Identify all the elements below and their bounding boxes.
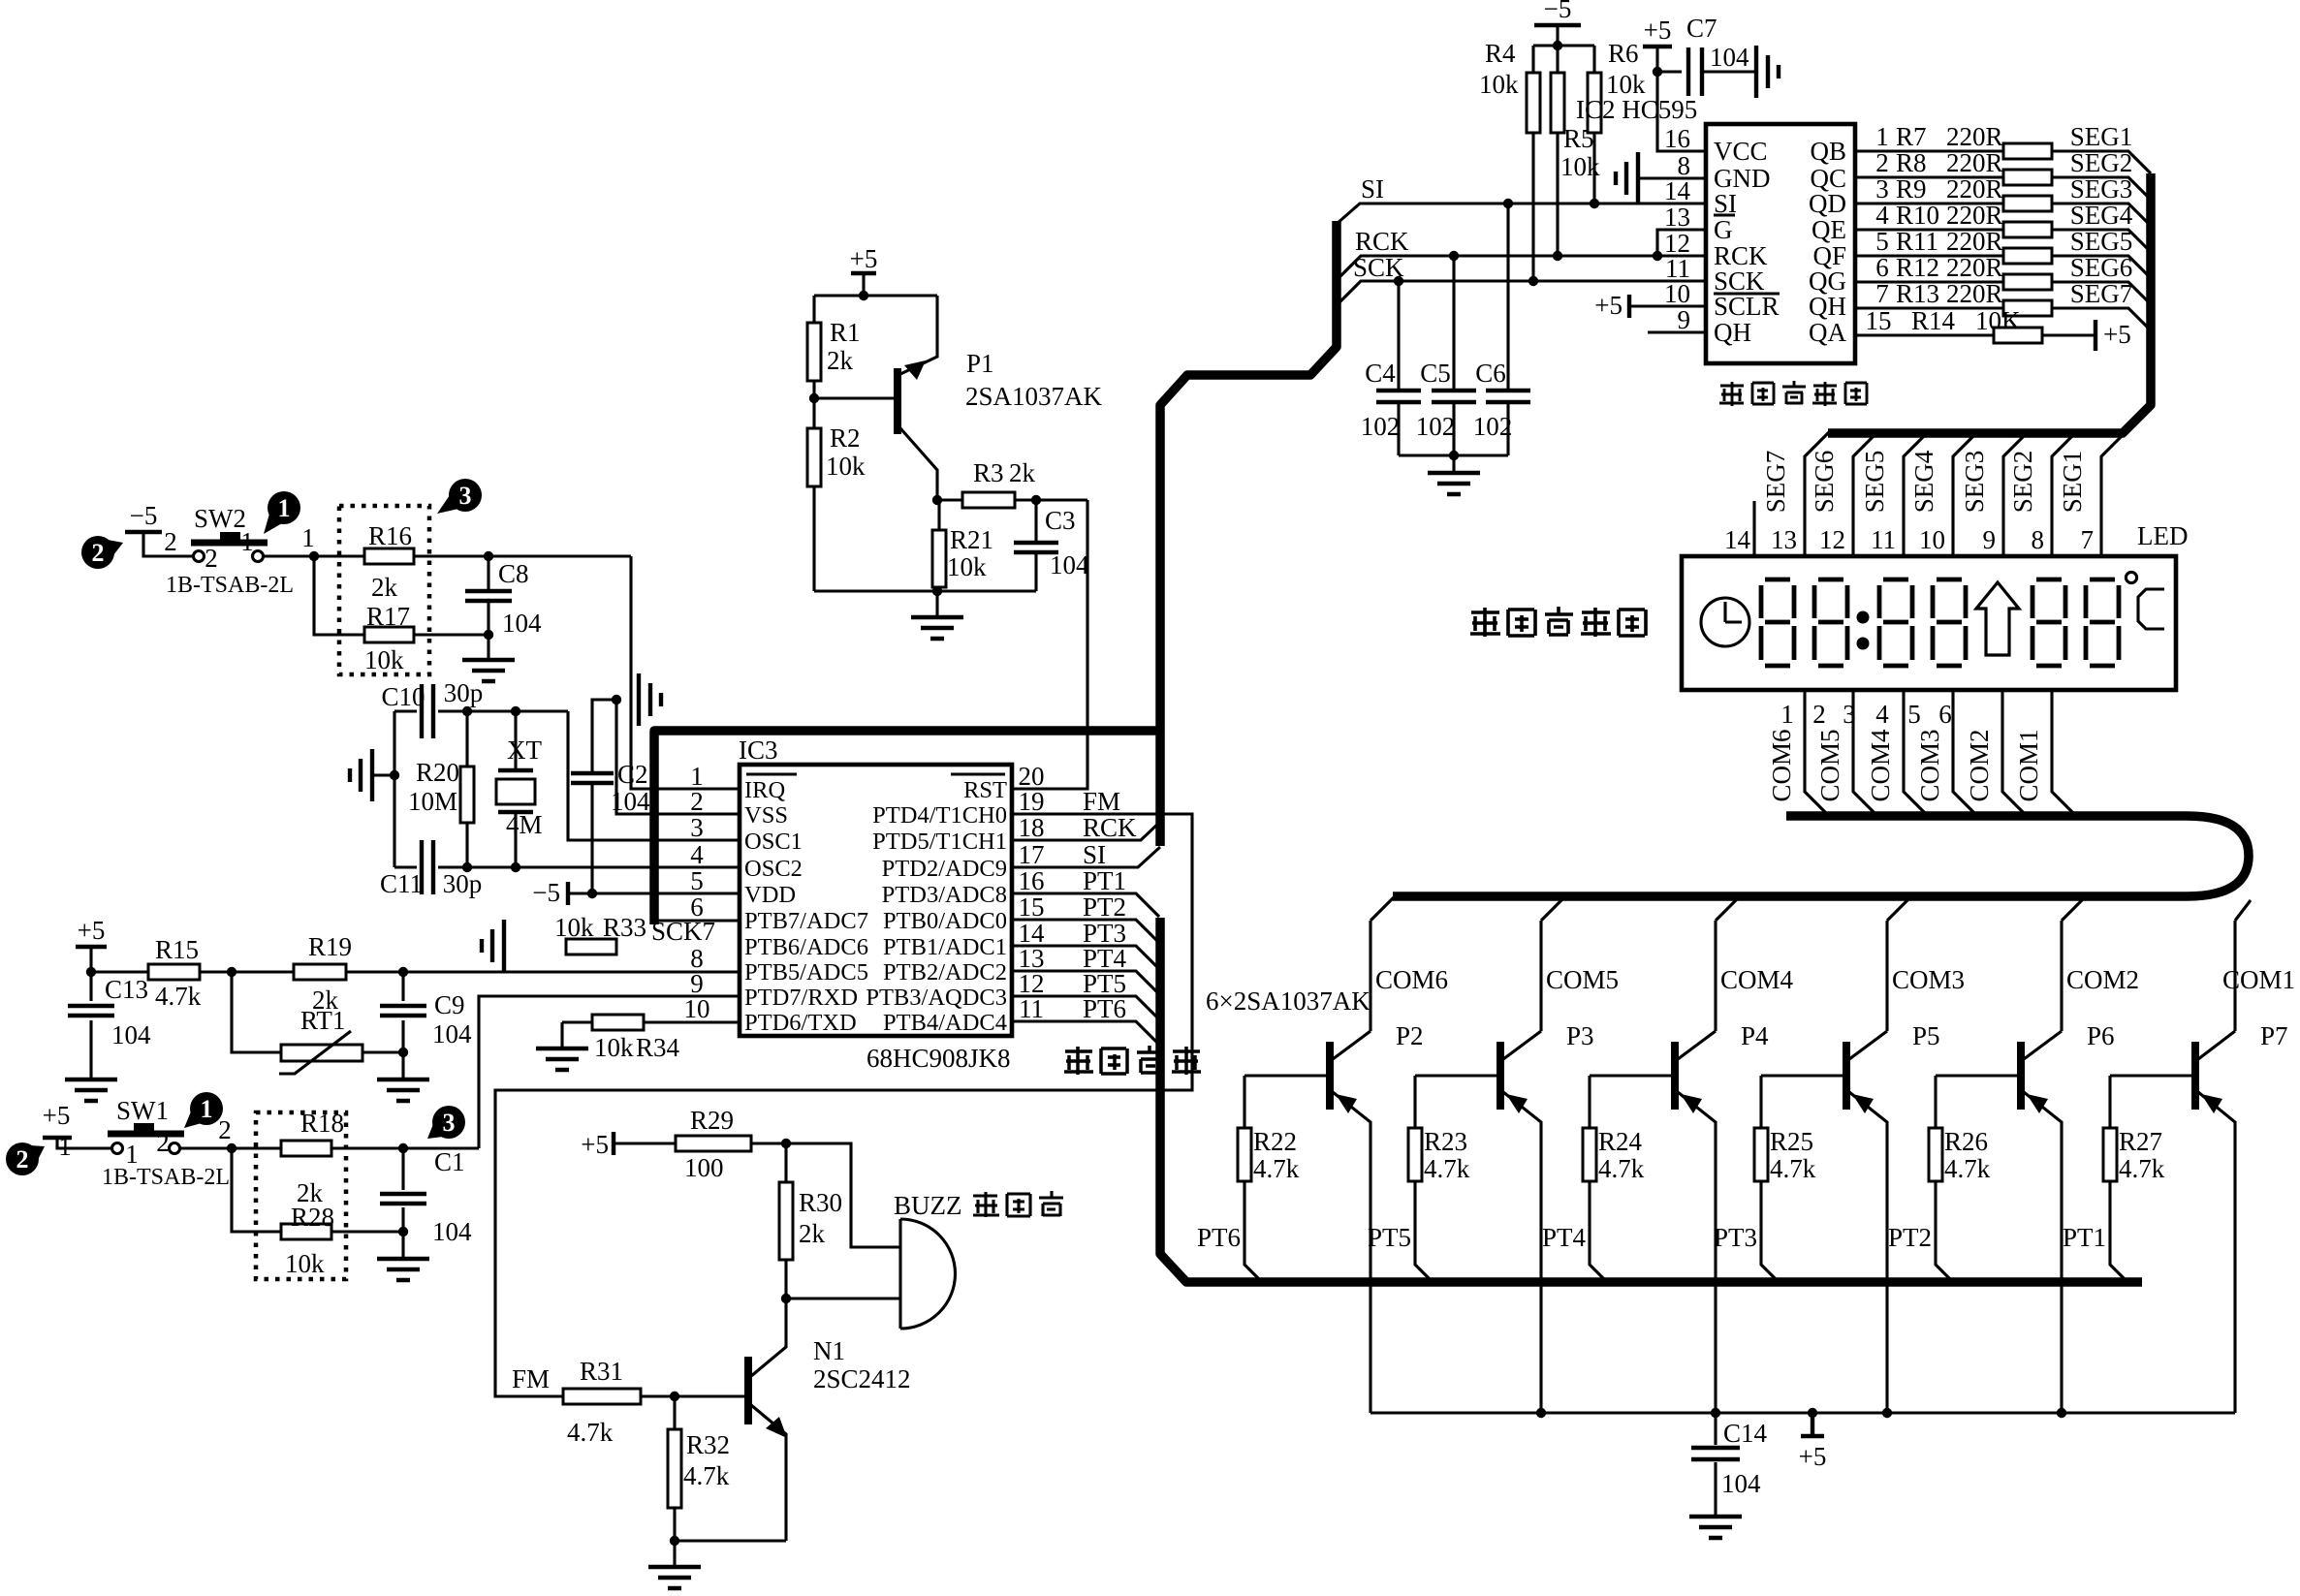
wire -5 to R4/R5/R6 top xyxy=(1556,25,1559,46)
svg-text:PT6: PT6 xyxy=(1197,1223,1241,1252)
svg-text:P1: P1 xyxy=(966,349,994,378)
resistor R21 xyxy=(932,530,946,587)
display bottom pin 3 line xyxy=(1904,690,1928,816)
junction C1 bottom xyxy=(398,1227,408,1236)
resistor R16 xyxy=(364,548,414,564)
wire C10 row xyxy=(394,709,568,712)
resistor R11 xyxy=(2003,248,2052,264)
svg-text:P2: P2 xyxy=(1396,1021,1424,1050)
junction C13 top xyxy=(86,967,96,977)
svg-text:+5: +5 xyxy=(78,916,106,945)
power +5 terminal (R14) xyxy=(2094,320,2097,351)
resistor R10 xyxy=(2003,222,2052,237)
wire R28 out xyxy=(331,1230,403,1233)
svg-text:XT: XT xyxy=(507,735,542,765)
svg-text:QB: QB xyxy=(1810,137,1846,166)
svg-text:PTB7/ADC7: PTB7/ADC7 xyxy=(744,908,868,934)
junction C5/RCK xyxy=(1449,251,1459,261)
wire COM3 collector xyxy=(1887,896,1911,1031)
svg-text:SI: SI xyxy=(1361,174,1384,203)
svg-text:9: 9 xyxy=(1678,305,1691,334)
wire to C7 xyxy=(1657,70,1682,73)
wire PT1 to bus xyxy=(1012,893,1159,917)
junction R3/C3 xyxy=(1031,495,1041,505)
wire PT6 to bus xyxy=(1012,1021,1159,1045)
svg-text:IC3: IC3 xyxy=(739,735,778,765)
resistor R19 xyxy=(294,964,346,980)
svg-text:PTB3/AQDC3: PTB3/AQDC3 xyxy=(866,985,1007,1011)
wire R34 row pin10 xyxy=(562,1020,740,1023)
wire emitter return xyxy=(675,1539,786,1542)
wire COM6 collector xyxy=(1371,896,1395,1031)
svg-text:G: G xyxy=(1714,215,1733,244)
wire pin10 xyxy=(1629,304,1706,307)
svg-text:+5: +5 xyxy=(1594,291,1623,320)
svg-text:COM5: COM5 xyxy=(1815,729,1844,801)
wire P1 emitter xyxy=(900,296,937,374)
junction C7/+5 xyxy=(1653,67,1662,77)
svg-text:R3: R3 xyxy=(973,458,1004,487)
wire to buzzer - xyxy=(786,1297,900,1299)
svg-text:+5: +5 xyxy=(43,1101,71,1130)
callout 1 (SW1) xyxy=(190,1092,223,1125)
resistor R29 xyxy=(676,1136,751,1151)
bus display bottom U-turn xyxy=(1393,816,2249,896)
wire R32 leads xyxy=(673,1396,676,1541)
svg-text:R28: R28 xyxy=(291,1203,334,1232)
junction C8 bottom xyxy=(484,630,493,640)
LED display outline xyxy=(1682,556,2176,690)
bus PT harness (lower) xyxy=(1160,918,2142,1282)
7-segment digit 3 xyxy=(1879,579,1912,666)
svg-text:SEG4: SEG4 xyxy=(2070,201,2133,230)
svg-text:7: 7 xyxy=(1875,279,1889,308)
svg-text:13: 13 xyxy=(1664,203,1690,232)
wire SW2 to R16 xyxy=(264,554,364,557)
junction C9 top xyxy=(398,967,408,977)
svg-text:6×2SA1037AK: 6×2SA1037AK xyxy=(1206,986,1371,1016)
svg-text:P3: P3 xyxy=(1566,1021,1594,1050)
svg-text:16: 16 xyxy=(1019,866,1045,895)
svg-text:2: 2 xyxy=(164,527,177,556)
wire R23 leads xyxy=(1415,1076,1434,1283)
wire RT1 out xyxy=(362,1050,403,1053)
wire PT2 to bus xyxy=(1012,920,1159,943)
7-segment digit 1 xyxy=(1761,579,1794,666)
junction R31/R32 xyxy=(670,1392,679,1401)
wire PT4 to bus xyxy=(1012,971,1159,994)
svg-text:COM4: COM4 xyxy=(1720,965,1794,994)
resistor R20 xyxy=(460,767,474,823)
resistor R32 xyxy=(668,1429,681,1508)
IC2 output pin 2 wire xyxy=(1855,177,2151,200)
svg-text:PTB6/ADC6: PTB6/ADC6 xyxy=(744,934,868,960)
svg-text:C2: C2 xyxy=(617,760,648,789)
IC2 overline SCLR xyxy=(1714,292,1780,295)
svg-text:COM2: COM2 xyxy=(1965,729,1994,801)
svg-text:PT1: PT1 xyxy=(2063,1223,2106,1252)
callout 1 (SW2) xyxy=(268,491,300,524)
wire P5 collector diag xyxy=(1849,1031,1887,1059)
7-segment digit 4 xyxy=(1933,579,1966,666)
svg-text:3: 3 xyxy=(459,482,472,510)
wire P6 emitter xyxy=(2024,1092,2062,1413)
transistor P6 2SA1037AK xyxy=(2017,1042,2025,1110)
svg-text:COM3: COM3 xyxy=(1892,965,1965,994)
junction R5/RCK xyxy=(1553,251,1562,261)
svg-text:COM6: COM6 xyxy=(1375,965,1448,994)
wire to ground xyxy=(673,1541,676,1565)
wire IRQ to SW2 net xyxy=(631,556,740,789)
wire P6 base xyxy=(1936,1074,2018,1077)
svg-text:FM: FM xyxy=(512,1364,550,1393)
bus SEG bundle (right) xyxy=(1828,173,2151,433)
svg-text:R9: R9 xyxy=(1896,174,1927,203)
IC2 overline G xyxy=(1714,213,1735,216)
svg-text:R4: R4 xyxy=(1485,39,1516,68)
svg-text:COM1: COM1 xyxy=(2014,729,2043,801)
IC2 output pin 3 wire xyxy=(1855,203,2151,226)
wire C4 xyxy=(1397,281,1400,455)
IC2 HC595 shift register xyxy=(1706,124,1855,363)
display top pin 11 line xyxy=(1904,432,1928,556)
svg-text:102: 102 xyxy=(1416,412,1456,441)
svg-text:R15: R15 xyxy=(155,935,199,964)
svg-text:COM6: COM6 xyxy=(1767,729,1796,801)
svg-text:+5: +5 xyxy=(581,1130,609,1159)
callout 2 (SW2) xyxy=(81,536,114,569)
wire P7 base xyxy=(2110,1074,2192,1077)
svg-text:PTD7/RXD: PTD7/RXD xyxy=(744,985,858,1011)
wire top rail xyxy=(814,294,937,297)
svg-text:5: 5 xyxy=(1875,227,1889,256)
svg-text:RCK: RCK xyxy=(1355,227,1409,256)
display bottom pin 4 line xyxy=(1953,690,1977,816)
svg-text:4M: 4M xyxy=(506,810,543,839)
wire R16 to C8/IRQ xyxy=(414,554,631,557)
wire +5 to R29 xyxy=(614,1142,676,1144)
svg-text:R19: R19 xyxy=(308,932,352,961)
svg-text:SEG3: SEG3 xyxy=(1960,451,1989,514)
display top pin 9 line xyxy=(2003,432,2028,556)
svg-text:PTB5/ADC5: PTB5/ADC5 xyxy=(744,959,868,986)
svg-text:R22: R22 xyxy=(1253,1127,1297,1156)
svg-text:PT1: PT1 xyxy=(1083,866,1126,895)
svg-text:4.7k: 4.7k xyxy=(2119,1154,2165,1183)
ground (VSS) xyxy=(639,673,661,726)
svg-text:R11: R11 xyxy=(1896,227,1938,256)
resistor R9 xyxy=(2003,196,2052,211)
svg-text:VDD: VDD xyxy=(744,882,796,908)
IC2 output pin 5 wire xyxy=(1855,256,2151,278)
wire to R28 xyxy=(232,1148,281,1232)
svg-text:104: 104 xyxy=(1710,43,1749,72)
wire C8 leads xyxy=(487,556,489,658)
wire C6 xyxy=(1506,203,1509,455)
junction R20 top xyxy=(462,706,472,716)
wire C14 leads xyxy=(1714,1413,1717,1515)
power +5 terminal (SCLR pin10) xyxy=(1627,295,1631,318)
wire C3 leads xyxy=(1034,500,1037,591)
svg-text:−5: −5 xyxy=(130,501,158,530)
svg-text:9: 9 xyxy=(1983,525,1997,554)
resistor R5 xyxy=(1551,73,1564,133)
junction G/RCK xyxy=(1653,251,1662,261)
display top pin 7 line xyxy=(2101,432,2126,556)
svg-text:P4: P4 xyxy=(1741,1021,1769,1050)
transistor P5 2SA1037AK xyxy=(1843,1042,1850,1110)
junction C9 bottom xyxy=(398,1048,408,1057)
svg-text:R1: R1 xyxy=(830,318,861,347)
junction C2/-5 xyxy=(587,889,597,898)
svg-text:6: 6 xyxy=(1938,700,1952,729)
junction +5 xyxy=(1808,1408,1817,1418)
svg-text:14: 14 xyxy=(1724,525,1751,554)
svg-text:220R: 220R xyxy=(1946,174,2003,203)
svg-text:P6: P6 xyxy=(2087,1021,2115,1050)
svg-text:SI: SI xyxy=(1083,840,1106,869)
svg-text:220R: 220R xyxy=(1946,253,2003,282)
wire to C2 xyxy=(592,700,616,773)
callout 3 (SW2) xyxy=(449,479,482,512)
wire R24 leads xyxy=(1590,1076,1608,1283)
svg-text:SEG6: SEG6 xyxy=(1810,451,1839,514)
svg-text:10k: 10k xyxy=(364,645,404,674)
svg-text:10: 10 xyxy=(1919,525,1945,554)
wire FM net xyxy=(495,814,1192,1396)
display bottom pin 5 line xyxy=(2002,690,2027,816)
resistor R1 xyxy=(807,323,821,381)
transistor P1 2SA1037AK xyxy=(894,368,901,434)
wire P1 collector xyxy=(900,428,937,500)
ground (P1) xyxy=(911,617,963,639)
display bottom pin 1 line xyxy=(1805,690,1829,816)
IC3 overline IRQ xyxy=(746,772,797,775)
svg-text:C13: C13 xyxy=(105,975,148,1004)
svg-text:SEG4: SEG4 xyxy=(1909,450,1938,513)
wire P6 collector diag xyxy=(2024,1031,2062,1059)
degree-C icon xyxy=(2126,572,2136,582)
transistor P4 2SA1037AK xyxy=(1671,1042,1679,1110)
ground (C8) xyxy=(462,660,515,681)
svg-text:R23: R23 xyxy=(1424,1127,1467,1156)
wire R17 out xyxy=(414,633,488,636)
svg-text:PT3: PT3 xyxy=(1714,1223,1757,1252)
svg-text:PT6: PT6 xyxy=(1083,994,1126,1023)
colon dots xyxy=(1857,611,1870,624)
svg-text:6: 6 xyxy=(1875,253,1889,282)
svg-text:14: 14 xyxy=(1664,176,1691,205)
wire SI net xyxy=(1337,203,1706,224)
wire P2 collector diag xyxy=(1333,1031,1371,1059)
resistor R33 xyxy=(566,939,616,954)
svg-text:R10: R10 xyxy=(1896,201,1939,230)
wire -5 to SW2 xyxy=(143,532,193,556)
svg-text:2SA1037AK: 2SA1037AK xyxy=(965,382,1103,411)
svg-text:SEG7: SEG7 xyxy=(1761,451,1790,514)
junction node1 xyxy=(309,551,319,561)
ground (pin8) xyxy=(1616,152,1638,204)
svg-text:R12: R12 xyxy=(1896,253,1939,282)
wire PT5 to bus xyxy=(1012,996,1159,1019)
ground (crystal) xyxy=(350,749,372,801)
svg-text:+5: +5 xyxy=(2103,320,2131,349)
svg-text:4: 4 xyxy=(1875,201,1889,230)
svg-text:104: 104 xyxy=(502,609,542,638)
svg-text:COM1: COM1 xyxy=(2222,965,2295,994)
svg-text:4.7k: 4.7k xyxy=(155,982,202,1011)
svg-text:R32: R32 xyxy=(686,1430,730,1459)
svg-text:R33: R33 xyxy=(603,913,646,942)
wire R18 to C1/pin9 xyxy=(331,1146,479,1149)
IC3 68HC908JK8 microprocessor xyxy=(740,765,1012,1036)
wire OSC2 row xyxy=(438,865,740,868)
svg-text:PTD5/T1CH1: PTD5/T1CH1 xyxy=(872,829,1007,855)
svg-text:BUZZ: BUZZ xyxy=(894,1191,962,1220)
svg-text:LED: LED xyxy=(2137,521,2188,550)
svg-text:10k: 10k xyxy=(285,1249,325,1278)
wire COM1 collector xyxy=(2235,900,2251,1031)
svg-text:10k: 10k xyxy=(554,913,594,942)
resistor R6 xyxy=(1588,73,1601,133)
dotted box R16/R17 xyxy=(339,506,429,674)
svg-text:R13: R13 xyxy=(1896,279,1939,308)
svg-text:R20: R20 xyxy=(416,758,459,787)
svg-text:11: 11 xyxy=(1871,525,1896,554)
svg-text:2k: 2k xyxy=(799,1219,826,1248)
wire C11 row xyxy=(394,865,417,868)
7-segment digit 2 xyxy=(1814,579,1847,666)
svg-text:2: 2 xyxy=(92,539,105,567)
wire R20 leads xyxy=(465,711,468,867)
svg-text:104: 104 xyxy=(1721,1469,1761,1498)
transistor N1 2SC2412 xyxy=(744,1357,752,1424)
7-segment digit 5 xyxy=(2032,579,2065,666)
svg-text:SEG5: SEG5 xyxy=(1860,451,1889,514)
svg-text:16: 16 xyxy=(1664,124,1690,153)
junction C6/SI xyxy=(1503,199,1513,208)
svg-text:+5: +5 xyxy=(1799,1442,1827,1471)
junction C8 top xyxy=(484,551,493,561)
svg-text:3: 3 xyxy=(690,813,704,842)
svg-text:2: 2 xyxy=(690,787,704,816)
wire R2 leads xyxy=(812,398,815,591)
junction collector/R3 xyxy=(932,495,942,505)
svg-text:3: 3 xyxy=(443,1109,456,1137)
svg-text:8: 8 xyxy=(2032,525,2045,554)
svg-text:SEG2: SEG2 xyxy=(2008,451,2037,514)
svg-text:R7: R7 xyxy=(1896,122,1927,151)
junction cap bank xyxy=(1449,451,1459,460)
svg-text:+5: +5 xyxy=(1644,16,1672,45)
svg-text:4.7k: 4.7k xyxy=(1424,1154,1470,1183)
resistor R31 xyxy=(563,1389,641,1404)
svg-text:R24: R24 xyxy=(1598,1127,1643,1156)
svg-text:4.7k: 4.7k xyxy=(683,1461,730,1490)
svg-text:IC2 HC595: IC2 HC595 xyxy=(1576,95,1697,124)
svg-text:4.7k: 4.7k xyxy=(567,1418,614,1447)
bus branch to IC3 SCK xyxy=(654,731,1160,924)
svg-text:QE: QE xyxy=(1812,215,1846,244)
wire R3 leads xyxy=(937,498,1036,501)
svg-text:P5: P5 xyxy=(1912,1021,1940,1050)
wire R6 leads xyxy=(1592,46,1595,203)
buzzer BUZZ xyxy=(898,1219,901,1329)
capacitor C7 xyxy=(1688,47,1702,96)
wire N1 collector xyxy=(751,1299,786,1376)
wire to ground xyxy=(1452,455,1455,471)
wire SW1 to R18 xyxy=(180,1146,281,1149)
resistor R2 xyxy=(807,428,821,486)
svg-text:1: 1 xyxy=(58,1132,72,1161)
svg-text:1B-TSAB-2L: 1B-TSAB-2L xyxy=(166,573,294,598)
svg-text:220R: 220R xyxy=(1946,201,2003,230)
svg-text:−5: −5 xyxy=(532,878,560,907)
resistor R15 xyxy=(148,964,200,980)
svg-text:PTB2/ADC2: PTB2/ADC2 xyxy=(883,959,1007,986)
svg-text:10: 10 xyxy=(684,994,710,1023)
svg-text:−5: −5 xyxy=(1544,0,1572,23)
svg-text:1: 1 xyxy=(240,527,254,556)
svg-text:FM: FM xyxy=(1083,787,1120,816)
callout 2 (SW1) xyxy=(6,1142,39,1175)
junction C4/SCK xyxy=(1394,276,1403,286)
svg-text:QH: QH xyxy=(1809,292,1846,321)
wire R21 leads xyxy=(937,500,940,591)
svg-text:R34: R34 xyxy=(636,1033,680,1062)
7-segment digit 6 xyxy=(2086,579,2119,666)
junction R6/SI xyxy=(1590,199,1599,208)
junction ground left xyxy=(390,770,399,780)
wire C9 leads xyxy=(401,972,404,1078)
wire +5 stem xyxy=(862,273,865,296)
ground (C13) xyxy=(65,1080,117,1101)
svg-text:SEG6: SEG6 xyxy=(2070,253,2133,282)
svg-text:3: 3 xyxy=(1875,174,1889,203)
IC2 output pin 1 wire xyxy=(1855,151,2151,173)
junction emitter/ground xyxy=(670,1536,679,1546)
junction XT bottom xyxy=(511,862,520,872)
power -5 terminal (VDD) xyxy=(566,882,570,905)
wire +5 to VCC pin16 xyxy=(1657,72,1706,151)
wire R26 leads xyxy=(1936,1076,1954,1283)
wire to ground xyxy=(935,591,938,615)
svg-text:7: 7 xyxy=(2081,525,2095,554)
svg-text:SEG1: SEG1 xyxy=(2058,451,2087,514)
svg-text:RST: RST xyxy=(963,777,1007,803)
label 微处理器 (microprocessor) xyxy=(1064,1047,1093,1075)
ground (R33) xyxy=(482,920,504,972)
svg-text:68HC908JK8: 68HC908JK8 xyxy=(866,1044,1011,1073)
svg-text:C5: C5 xyxy=(1420,359,1451,388)
wire RST to P1 stage xyxy=(1012,500,1087,789)
svg-text:13: 13 xyxy=(1771,525,1797,554)
wire P7 collector diag xyxy=(2198,1031,2235,1059)
dotted box R18/R28 xyxy=(256,1112,346,1279)
svg-text:2k: 2k xyxy=(827,346,854,375)
svg-text:N1: N1 xyxy=(813,1336,845,1365)
resistor R34 xyxy=(592,1015,644,1030)
svg-text:30p: 30p xyxy=(443,869,483,898)
svg-text:C11: C11 xyxy=(380,869,423,898)
svg-text:QH: QH xyxy=(1714,318,1751,347)
wire R22 leads xyxy=(1245,1076,1263,1283)
svg-text:R16: R16 xyxy=(368,521,412,550)
svg-text:4.7k: 4.7k xyxy=(1770,1154,1816,1183)
svg-text:QD: QD xyxy=(1809,189,1846,218)
svg-text:102: 102 xyxy=(1361,412,1401,441)
svg-text:10k: 10k xyxy=(826,452,866,481)
